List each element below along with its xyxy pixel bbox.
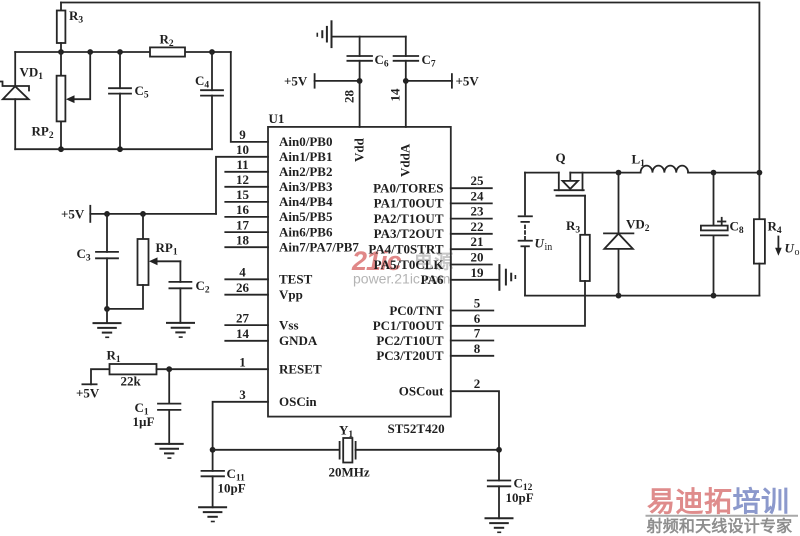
ground below C2 xyxy=(167,323,194,337)
svg-text:Vpp: Vpp xyxy=(279,287,303,302)
svg-text:R4: R4 xyxy=(768,219,782,237)
node Uo output arrow xyxy=(775,237,799,259)
wire to pin 9 xyxy=(231,52,268,142)
pin 6 PC1/T0OUT xyxy=(373,311,481,333)
pin 23 PA2/T1OUT xyxy=(374,204,492,226)
node junction wiper xyxy=(87,49,93,55)
svg-text:PA6: PA6 xyxy=(421,272,444,287)
node junction R3/RP2 xyxy=(58,49,64,55)
svg-text:10: 10 xyxy=(236,142,249,157)
pin 5 PC0/TNT xyxy=(389,296,493,318)
svg-text:C7: C7 xyxy=(422,52,436,70)
pin 16 Ain5/PB5 xyxy=(225,202,333,224)
svg-text:射频和天线设计专家: 射频和天线设计专家 xyxy=(646,517,794,536)
wire R3 top lead xyxy=(60,3,62,11)
svg-text:R3: R3 xyxy=(69,8,83,26)
svg-text:U: U xyxy=(535,236,545,251)
svg-text:Ain6/PB6: Ain6/PB6 xyxy=(279,224,333,239)
node junction crystal wire xyxy=(210,447,216,453)
svg-text:U1: U1 xyxy=(269,111,285,126)
svg-text:Vss: Vss xyxy=(279,317,299,332)
pin 9 Ain0/PB0 xyxy=(239,127,332,149)
node junction C8 top xyxy=(711,170,717,176)
pin 17 Ain6/PB6 xyxy=(225,217,333,239)
svg-text:L1: L1 xyxy=(632,152,646,170)
svg-text:GNDA: GNDA xyxy=(279,333,318,348)
svg-text:PC2/T10UT: PC2/T10UT xyxy=(376,333,444,348)
pin 1 RESET xyxy=(239,354,322,376)
svg-text:Q: Q xyxy=(556,150,566,165)
wire ground to C6/C7 tops xyxy=(332,37,406,56)
svg-text:28: 28 xyxy=(342,90,357,104)
capacitor C11 10pF xyxy=(202,466,246,507)
svg-text:R2: R2 xyxy=(160,32,174,50)
svg-text:21: 21 xyxy=(471,234,484,249)
pin 20 PA5/T0CLK xyxy=(374,250,492,272)
svg-text:PA2/T1OUT: PA2/T1OUT xyxy=(374,211,444,226)
svg-text:6: 6 xyxy=(474,311,481,326)
node junction R2/C4 xyxy=(209,49,215,55)
svg-text:Ain4/PB4: Ain4/PB4 xyxy=(279,194,333,209)
svg-text:17: 17 xyxy=(236,217,250,232)
svg-text:5: 5 xyxy=(474,296,481,311)
resistor R2 xyxy=(150,32,185,57)
svg-text:PA4/T0STRT: PA4/T0STRT xyxy=(368,242,443,257)
svg-text:16: 16 xyxy=(236,202,250,217)
svg-text:RP2: RP2 xyxy=(32,124,54,142)
wire +5V rail (y=213.9) xyxy=(90,213,216,215)
wire crystal right segment xyxy=(356,449,499,451)
svg-text:15: 15 xyxy=(236,187,250,202)
svg-text:Ain7/PA7/PB7: Ain7/PA7/PB7 xyxy=(279,240,359,255)
node junction R4 top / feedback xyxy=(757,170,763,176)
svg-text:C8: C8 xyxy=(730,219,744,237)
+5V terminal top left of C6 xyxy=(284,74,360,89)
svg-text:R3: R3 xyxy=(566,218,580,236)
wire top rail L1 to R4 xyxy=(688,172,759,174)
+5V terminal at R1 xyxy=(76,369,110,400)
svg-text:+5V: +5V xyxy=(61,207,85,222)
pin 10 Ain1/PB1 xyxy=(236,142,332,164)
svg-text:27: 27 xyxy=(236,310,250,325)
svg-text:C3: C3 xyxy=(77,246,91,264)
svg-text:VD2: VD2 xyxy=(626,217,650,235)
node junction VD2 bottom xyxy=(616,293,622,299)
pin 2 OSCout xyxy=(399,376,481,398)
svg-text:22k: 22k xyxy=(121,374,142,389)
pin 27 Vss xyxy=(225,310,298,332)
wire rail node B (y=149.2) xyxy=(15,148,212,150)
pin 15 Ain4/PB4 xyxy=(225,187,333,209)
wire R1 to pin 1 RESET xyxy=(157,368,269,370)
capacitor C3 xyxy=(77,214,119,309)
node junction C1 top xyxy=(166,366,172,372)
pin 12 Ain3/PB3 xyxy=(225,172,333,194)
svg-text:4: 4 xyxy=(239,265,246,280)
node junction pin28 rail xyxy=(357,78,363,84)
wire R3 bottom lead xyxy=(60,43,62,52)
svg-text:PA5/T0CLK: PA5/T0CLK xyxy=(374,257,445,272)
wire pin 2 OSCout to C12 xyxy=(451,391,499,480)
pin 14 GNDA xyxy=(225,326,318,348)
svg-text:18: 18 xyxy=(236,232,250,247)
battery Uin xyxy=(519,173,553,296)
+5V terminal mid-left xyxy=(61,206,90,222)
svg-text:RESET: RESET xyxy=(279,362,322,377)
potentiometer RP2 xyxy=(32,52,91,149)
node junction C3 top xyxy=(104,211,110,217)
node junction C8 bottom xyxy=(711,293,717,299)
potentiometer RP1 xyxy=(107,214,180,309)
svg-text:14: 14 xyxy=(388,88,403,102)
wire bottom rail right section xyxy=(525,295,759,297)
svg-text:2: 2 xyxy=(474,376,481,391)
svg-text:14: 14 xyxy=(236,326,250,341)
pin 22 PA3/T2OUT xyxy=(374,219,492,241)
node junction VD2 top xyxy=(616,170,622,176)
capacitor C12 10pF xyxy=(488,476,534,519)
pin 19 PA6 xyxy=(421,265,499,287)
svg-text:PC0/TNT: PC0/TNT xyxy=(389,303,444,318)
ground below C12 xyxy=(486,518,513,532)
svg-text:Vdd: Vdd xyxy=(352,137,367,162)
svg-text:+5V: +5V xyxy=(284,74,308,89)
resistor R3 (top left) xyxy=(57,11,66,44)
svg-text:8: 8 xyxy=(474,341,481,356)
node junction RP1 top xyxy=(140,211,146,217)
svg-text:20: 20 xyxy=(471,250,484,265)
pin 14 VddA xyxy=(388,81,413,177)
svg-text:7: 7 xyxy=(474,326,481,341)
resistor R4 xyxy=(754,173,782,296)
pin 4 TEST xyxy=(225,265,312,287)
svg-text:10pF: 10pF xyxy=(506,490,534,505)
capacitor C2 xyxy=(169,261,209,323)
svg-text:19: 19 xyxy=(471,265,485,280)
svg-text:Y1: Y1 xyxy=(339,423,353,441)
svg-text:1µF: 1µF xyxy=(133,414,155,429)
svg-text:22: 22 xyxy=(471,219,484,234)
svg-text:23: 23 xyxy=(471,204,485,219)
svg-text:25: 25 xyxy=(471,173,485,188)
svg-text:RP1: RP1 xyxy=(156,240,178,258)
ground below C1 xyxy=(156,444,183,458)
svg-text:C4: C4 xyxy=(195,73,209,91)
svg-text:10pF: 10pF xyxy=(218,481,246,496)
svg-text:9: 9 xyxy=(239,127,246,142)
inductor L1 xyxy=(632,152,689,173)
node junction C5 xyxy=(117,49,123,55)
ground sideways top middle xyxy=(317,21,331,47)
svg-text:C6: C6 xyxy=(375,52,389,70)
svg-text:PA1/T0OUT: PA1/T0OUT xyxy=(374,196,444,211)
svg-text:26: 26 xyxy=(236,280,250,295)
svg-text:3: 3 xyxy=(239,387,246,402)
wire rail node A (y=52) xyxy=(15,51,150,53)
svg-text:PC1/T0OUT: PC1/T0OUT xyxy=(373,318,444,333)
svg-text:PA0/TORES: PA0/TORES xyxy=(373,181,443,196)
resistor R3 (gate) xyxy=(566,218,590,281)
node junction RP2 bottom xyxy=(58,146,64,152)
svg-text:PC3/T20UT: PC3/T20UT xyxy=(376,348,444,363)
pin 24 PA1/T0OUT xyxy=(374,188,492,210)
svg-text:20MHz: 20MHz xyxy=(329,465,370,480)
ground below C11 xyxy=(199,507,226,521)
svg-text:C5: C5 xyxy=(135,83,149,101)
svg-text:24: 24 xyxy=(471,188,485,203)
svg-text:in: in xyxy=(545,242,553,253)
svg-text:1: 1 xyxy=(239,354,246,369)
watermark yiditui logo bottom right xyxy=(646,485,799,536)
wire crystal left segment xyxy=(213,449,340,451)
ground below C3 xyxy=(94,309,121,337)
diode VD2 xyxy=(604,173,650,296)
svg-text:+5V: +5V xyxy=(76,386,100,401)
wire R3 bottom to pin 6 xyxy=(451,281,585,326)
svg-text:12: 12 xyxy=(236,172,249,187)
capacitor C1 1uF xyxy=(133,369,181,444)
resistor R1 22k xyxy=(107,348,157,389)
svg-text:U: U xyxy=(785,241,795,256)
svg-text:Ain0/PB0: Ain0/PB0 xyxy=(279,134,332,149)
svg-text:R1: R1 xyxy=(107,348,121,366)
svg-text:Ain3/PB3: Ain3/PB3 xyxy=(279,179,333,194)
crystal Y1 20MHz xyxy=(329,423,370,480)
capacitor C6 xyxy=(347,52,388,81)
node junction C12 top xyxy=(496,447,502,453)
svg-text:PA3/T2OUT: PA3/T2OUT xyxy=(374,226,444,241)
svg-text:C2: C2 xyxy=(196,278,210,296)
svg-text:11: 11 xyxy=(236,157,248,172)
svg-text:OSCout: OSCout xyxy=(399,384,444,399)
svg-text:Ain2/PB2: Ain2/PB2 xyxy=(279,164,332,179)
svg-text:o: o xyxy=(795,247,800,258)
node junction C3/RP1 bottom xyxy=(104,306,110,312)
svg-text:易迪拓培训: 易迪拓培训 xyxy=(647,485,790,517)
svg-text:Ain5/PB5: Ain5/PB5 xyxy=(279,209,333,224)
svg-text:VD1: VD1 xyxy=(20,65,44,83)
pin 25 PA0/TORES xyxy=(373,173,492,195)
capacitor C4 xyxy=(195,52,223,149)
svg-text:Ain1/PB1: Ain1/PB1 xyxy=(279,149,332,164)
svg-text:ST52T420: ST52T420 xyxy=(388,421,445,436)
capacitor C5 xyxy=(109,52,149,149)
pin 3 OSCin xyxy=(239,387,317,409)
ground sideways at pin 19 xyxy=(499,265,515,290)
pin 28 Vdd xyxy=(342,81,367,162)
pin 26 Vpp xyxy=(225,280,303,302)
pin 21 PA4/T0STRT xyxy=(368,234,491,256)
capacitor C8 electrolytic xyxy=(701,173,744,296)
capacitor C7 xyxy=(394,52,436,81)
transistor Q MOSFET xyxy=(555,150,585,235)
wire top rail right section (battery to Q) xyxy=(525,172,559,174)
svg-text:OSCin: OSCin xyxy=(279,394,317,409)
pin 8 PC3/T20UT xyxy=(376,341,493,363)
svg-text:+5V: +5V xyxy=(456,74,480,89)
pin 7 PC2/T10UT xyxy=(376,326,493,348)
+5V terminal top right of C7 xyxy=(406,74,480,89)
op-amp U1 microcontroller ST52T420 box xyxy=(268,111,451,436)
wire top rail Q to L1 xyxy=(570,172,640,174)
svg-text:VddA: VddA xyxy=(398,143,413,177)
pin 11 Ain2/PB2 xyxy=(225,157,332,179)
wire pin 3 OSCin to C11/crystal xyxy=(213,402,268,471)
wire to pin 10 xyxy=(216,157,268,214)
node junction C5 bottom xyxy=(117,146,123,152)
wire top feedback rail xyxy=(61,3,759,173)
pin 18 Ain7/PA7/PB7 xyxy=(225,232,359,254)
wire rail node A right of R2 xyxy=(185,51,231,53)
svg-text:TEST: TEST xyxy=(279,272,313,287)
zener diode VD1 xyxy=(0,52,43,149)
watermark 21ic center xyxy=(351,246,453,287)
node junction pin14 rail xyxy=(403,78,409,84)
